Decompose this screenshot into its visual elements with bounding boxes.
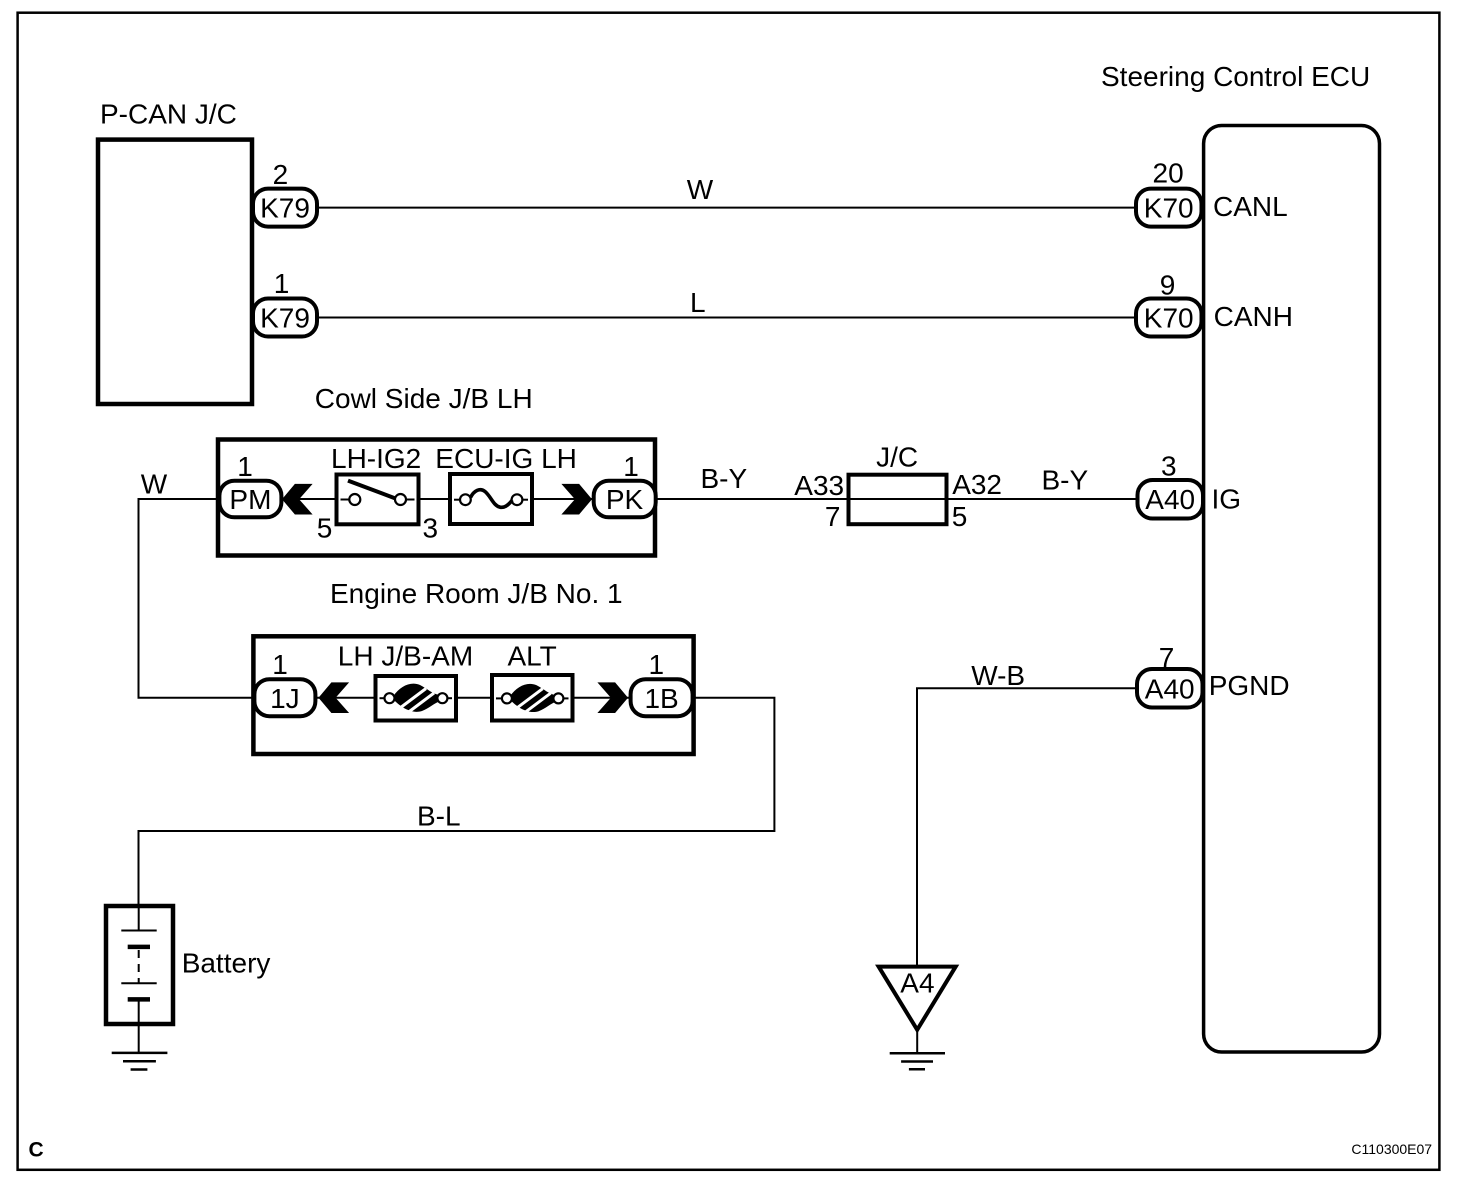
junction connector J/C A33/A32 [794,442,1002,532]
connector PM pin 1 [219,451,281,517]
svg-text:CANL: CANL [1213,191,1288,222]
svg-text:Battery: Battery [182,948,271,979]
svg-text:A33: A33 [794,470,844,501]
svg-text:Engine Room J/B No. 1: Engine Room J/B No. 1 [330,578,623,609]
svg-text:ALT: ALT [508,640,557,671]
arrow out to 1B [597,682,628,713]
svg-text:A32: A32 [952,469,1002,500]
svg-text:B-L: B-L [417,800,461,831]
battery [106,906,270,1053]
svg-text:2: 2 [273,159,289,190]
ECU U1 Steering Control ECU [1101,61,1380,1052]
svg-text:5: 5 [952,501,968,532]
wire W-B to PGND [917,660,1137,967]
arrow into 1J [319,682,350,713]
svg-text:3: 3 [423,513,439,544]
svg-text:W: W [687,174,714,205]
junction box Engine Room J/B No. 1 [253,578,693,754]
svg-text:1: 1 [274,268,290,299]
connector A40 pin 7 PGND [1137,642,1290,708]
svg-text:LH-IG2: LH-IG2 [331,443,421,474]
svg-text:A40: A40 [1145,674,1195,705]
svg-text:W-B: W-B [971,660,1025,691]
fuse ECU-IG LH [435,443,577,524]
svg-text:W: W [141,469,168,500]
connector K79 pin 1 [253,268,317,337]
connector 1J pin 1 [254,649,315,716]
svg-text:C110300E07: C110300E07 [1351,1141,1432,1157]
svg-text:C: C [29,1139,44,1162]
svg-text:K79: K79 [260,303,310,334]
svg-text:ECU-IG LH: ECU-IG LH [435,443,577,474]
svg-text:CANH: CANH [1214,301,1293,332]
svg-text:A4: A4 [900,968,934,999]
svg-text:K79: K79 [260,193,310,224]
svg-text:20: 20 [1153,157,1184,188]
svg-text:K70: K70 [1144,303,1194,334]
svg-text:1: 1 [649,649,665,680]
ground below battery [112,1053,168,1070]
junction box P-CAN J/C [98,98,252,404]
ground below A4 [890,1053,945,1069]
svg-text:3: 3 [1161,450,1177,481]
connector PK pin 1 [594,451,656,517]
svg-text:B-Y: B-Y [701,463,748,494]
svg-text:7: 7 [825,501,841,532]
svg-text:B-Y: B-Y [1042,465,1089,496]
wire B-Y from PK to A40 [656,463,1138,499]
svg-text:Steering Control ECU: Steering Control ECU [1101,61,1370,92]
connector 1B pin 1 [631,649,693,716]
connector A40 pin 3 IG [1138,450,1242,518]
svg-text:9: 9 [1160,270,1176,301]
arrow out to PK [561,484,592,515]
svg-text:PGND: PGND [1209,670,1290,701]
wire IG row inside cowl box [281,498,594,500]
svg-text:J/C: J/C [876,442,918,473]
svg-text:1: 1 [237,451,253,482]
connector K70 pin 20 CANL [1136,157,1288,226]
wire B-L from 1B to battery [139,698,775,906]
svg-text:IG: IG [1212,484,1242,515]
svg-text:L: L [690,287,706,318]
svg-text:PK: PK [606,484,644,515]
svg-text:P-CAN J/C: P-CAN J/C [100,98,237,129]
wire W to PM [139,469,255,698]
svg-text:LH J/B-AM: LH J/B-AM [338,640,473,671]
fusible link ALT [492,640,573,720]
arrow into PM [282,484,313,515]
svg-text:1J: 1J [270,683,300,714]
svg-text:1B: 1B [644,683,678,714]
ground point A4 [879,967,956,1054]
wire W (CANL) [317,174,1136,208]
svg-text:PM: PM [229,484,271,515]
connector K79 pin 2 [253,159,317,227]
connector K70 pin 9 CANH [1136,270,1293,337]
wire row inside engine box [315,697,631,699]
wire L (CANH) [317,287,1136,318]
svg-text:Cowl Side J/B LH: Cowl Side J/B LH [315,383,533,414]
svg-text:K70: K70 [1144,193,1194,224]
svg-text:1: 1 [623,451,639,482]
svg-text:A40: A40 [1145,484,1195,515]
svg-text:5: 5 [317,513,333,544]
fusible link LH J/B-AM [338,640,473,720]
svg-text:1: 1 [272,649,288,680]
junction box Cowl Side J/B LH [218,383,655,556]
switch LH-IG2 [317,443,438,544]
